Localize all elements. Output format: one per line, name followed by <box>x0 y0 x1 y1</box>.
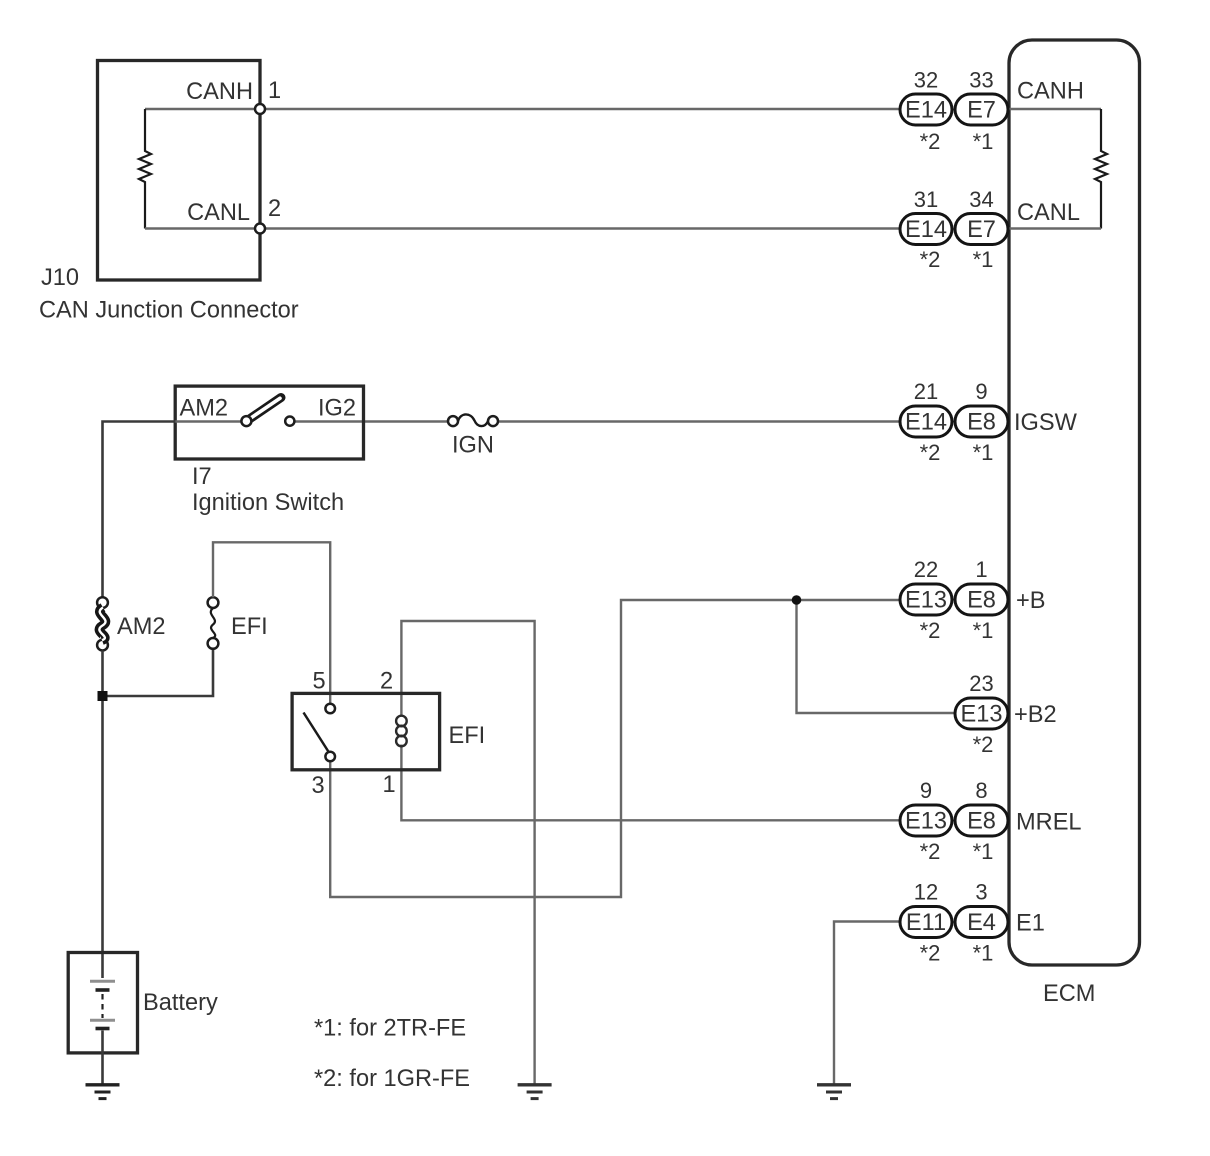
wire E1 to ground <box>834 922 900 1085</box>
row IGSW: oval E8 <box>955 406 1008 437</box>
fusible link AM2 <box>97 597 108 608</box>
svg-text:12: 12 <box>914 880 938 905</box>
svg-text:34: 34 <box>969 187 993 212</box>
fuse IGN <box>448 416 458 426</box>
svg-text:*1: *1 <box>973 129 994 154</box>
svg-text:8: 8 <box>975 778 987 803</box>
svg-text:*2: *2 <box>920 129 941 154</box>
svg-text:*2: *2 <box>920 440 941 465</box>
ground (E1) <box>817 1085 851 1099</box>
svg-text:E7: E7 <box>967 98 996 124</box>
wire J10 internal CANH <box>145 108 258 110</box>
resistor R-J10 (terminating resistor inside J10) <box>139 109 151 229</box>
svg-text:*1: *1 <box>973 941 994 966</box>
svg-text:+B: +B <box>1016 588 1046 614</box>
svg-text:E8: E8 <box>967 809 996 835</box>
row +B: oval E13 <box>900 584 952 615</box>
battery plate short bottom <box>96 1027 110 1031</box>
switch lever (I7) <box>246 398 281 422</box>
svg-text:CANL: CANL <box>187 200 250 226</box>
svg-text:E8: E8 <box>967 588 996 614</box>
svg-text:IG2: IG2 <box>318 396 356 422</box>
svg-text:E4: E4 <box>967 910 996 936</box>
row E1: oval E11 <box>900 907 952 938</box>
svg-text:+B2: +B2 <box>1014 702 1057 728</box>
svg-text:IGSW: IGSW <box>1014 410 1078 436</box>
svg-text:21: 21 <box>914 379 938 404</box>
svg-text:CANL: CANL <box>1017 200 1080 226</box>
svg-text:3: 3 <box>311 773 324 799</box>
wire CANH net J10 pin1 to ECM E14 <box>260 108 900 110</box>
wire relay pin 3 to ECM +B <box>330 600 900 897</box>
row +B2: oval E13 <box>955 698 1008 729</box>
svg-text:*2: *2 <box>920 247 941 272</box>
wire from I7 left to AM2 fusible link <box>103 422 176 598</box>
wire CANL net J10 pin2 to ECM E14 <box>260 227 900 229</box>
svg-text:2: 2 <box>380 669 393 695</box>
row E1: oval E4 <box>955 907 1008 938</box>
svg-text:Ignition Switch: Ignition Switch <box>192 490 344 516</box>
wire relay pin 2 (coil) to ground <box>401 621 534 1084</box>
wire CANL inside ECM from terminating resistor <box>1008 227 1101 229</box>
ground (battery) <box>86 1085 120 1099</box>
svg-text:1: 1 <box>975 557 987 582</box>
battery box <box>68 953 137 1053</box>
connector J10 box <box>98 61 261 281</box>
relay coil <box>396 716 407 747</box>
relay EFI box <box>292 693 440 769</box>
wire +B2 branch from junction dot B <box>797 600 956 713</box>
svg-text:23: 23 <box>969 671 993 696</box>
svg-text:*1: *1 <box>973 247 994 272</box>
row IGSW: oval E14 <box>900 406 952 437</box>
svg-text:AM2: AM2 <box>180 396 229 422</box>
svg-text:31: 31 <box>914 187 938 212</box>
svg-text:E7: E7 <box>967 217 996 243</box>
battery plate long top <box>90 980 115 983</box>
ground (EFI relay coil) <box>518 1085 552 1099</box>
svg-text:E14: E14 <box>905 217 947 243</box>
svg-text:J10: J10 <box>41 265 79 291</box>
svg-text:E14: E14 <box>905 98 947 124</box>
wire junction to EFI fuse <box>103 649 214 696</box>
wire CANH inside ECM to terminating resistor <box>1008 108 1101 110</box>
pin 2 of J10 <box>255 224 265 234</box>
svg-text:2: 2 <box>268 196 281 222</box>
switch pivot contact circle (I7) <box>241 416 251 426</box>
svg-text:*2: for 1GR-FE: *2: for 1GR-FE <box>314 1066 470 1092</box>
battery dashed middle <box>101 994 103 1018</box>
ECM box <box>1009 40 1140 965</box>
junction dot A <box>98 691 108 701</box>
wire relay pin 1 (coil) to ECM MREL <box>401 745 900 821</box>
relay pin 5 contact circle <box>325 704 335 714</box>
svg-text:CANH: CANH <box>186 79 253 105</box>
svg-text:9: 9 <box>975 379 987 404</box>
svg-text:E13: E13 <box>961 702 1003 728</box>
svg-text:E14: E14 <box>905 410 947 436</box>
wire inside I7 from left edge to pivot <box>175 420 242 422</box>
pin 1 of J10 <box>255 104 265 114</box>
svg-text:EFI: EFI <box>449 723 486 749</box>
svg-text:CAN Junction Connector: CAN Junction Connector <box>39 298 299 324</box>
svg-text:*1: *1 <box>973 440 994 465</box>
junction dot B <box>792 595 802 605</box>
svg-text:E11: E11 <box>906 910 946 936</box>
svg-text:3: 3 <box>975 880 987 905</box>
svg-text:*2: *2 <box>920 941 941 966</box>
relay pin 3 contact circle <box>325 752 335 762</box>
row MREL: oval E8 <box>955 805 1008 836</box>
wire J10 internal CANL <box>145 227 258 229</box>
wire AM2 link to junction to battery <box>101 651 104 979</box>
svg-text:AM2: AM2 <box>117 614 166 640</box>
svg-text:9: 9 <box>920 778 932 803</box>
wire EFI fuse to relay pin 5 <box>213 542 330 703</box>
svg-text:33: 33 <box>969 68 993 93</box>
svg-text:*2: *2 <box>973 732 994 757</box>
relay switch blade <box>304 713 330 753</box>
svg-text:E1: E1 <box>1016 911 1045 937</box>
row CANL: oval E7 <box>955 214 1008 245</box>
svg-text:I7: I7 <box>192 464 212 490</box>
svg-text:*2: *2 <box>920 839 941 864</box>
svg-text:CANH: CANH <box>1017 79 1084 105</box>
row MREL: oval E13 <box>900 805 952 836</box>
row CANH: oval E14 <box>900 94 952 125</box>
battery plate short top <box>96 988 110 992</box>
resistor R-ECM (terminating resistor inside ECM) <box>1095 109 1107 229</box>
svg-text:1: 1 <box>268 78 281 104</box>
svg-text:E8: E8 <box>967 410 996 436</box>
svg-text:MREL: MREL <box>1016 810 1082 836</box>
wire IGSW net: ignition switch to IGN fuse to ECM <box>295 420 448 422</box>
svg-text:ECM: ECM <box>1043 981 1095 1007</box>
svg-text:E13: E13 <box>905 809 947 835</box>
svg-text:E13: E13 <box>905 588 947 614</box>
svg-text:22: 22 <box>914 557 938 582</box>
fuse EFI <box>208 597 219 608</box>
row CANH: oval E7 <box>955 94 1008 125</box>
svg-text:32: 32 <box>914 68 938 93</box>
svg-text:*2: *2 <box>920 618 941 643</box>
battery plate long bottom <box>90 1019 115 1022</box>
svg-text:*1: *1 <box>973 618 994 643</box>
svg-text:EFI: EFI <box>231 614 268 640</box>
svg-text:*1: for 2TR-FE: *1: for 2TR-FE <box>314 1016 466 1042</box>
switch right contact circle (I7) <box>285 417 294 426</box>
ignition switch I7 box <box>175 386 363 459</box>
svg-text:Battery: Battery <box>143 990 218 1016</box>
wire battery to ground <box>101 1031 104 1085</box>
svg-text:*1: *1 <box>973 839 994 864</box>
svg-text:1: 1 <box>382 772 395 798</box>
row CANL: oval E14 <box>900 214 952 245</box>
row +B: oval E8 <box>955 584 1008 615</box>
svg-text:IGN: IGN <box>452 433 494 459</box>
svg-text:5: 5 <box>312 669 325 695</box>
